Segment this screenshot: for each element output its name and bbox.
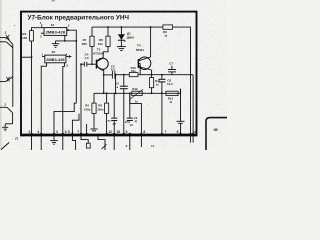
resistor R4 bbox=[92, 103, 96, 113]
pin tick 1 bbox=[41, 24, 43, 27]
wire cap C11 to border bbox=[113, 121, 115, 134]
resistor R1 bbox=[30, 31, 34, 41]
pin stub A1 left bbox=[41, 32, 44, 34]
wire R8 to collector bbox=[103, 46, 108, 58]
wire below pin 7 bbox=[81, 136, 88, 143]
wire feedback y41 bbox=[56, 40, 77, 42]
Q2 collector lead up bbox=[139, 57, 151, 61]
ground above border bbox=[177, 121, 185, 123]
Q1 base bar bbox=[95, 60, 97, 69]
node dot pin bbox=[123, 133, 125, 135]
node dot bbox=[67, 29, 69, 31]
Q1 emitter lead with arrow bbox=[97, 66, 104, 70]
wire jog to pin 5 bbox=[72, 114, 79, 134]
wire below pin 9 bbox=[140, 136, 142, 147]
node dot bbox=[115, 74, 117, 76]
resistor R13 on bus bbox=[166, 91, 178, 95]
wire to C5 bbox=[104, 74, 113, 76]
module A1 (filter 2МВ3-426) bbox=[44, 28, 67, 36]
wire R11 to bus bbox=[151, 88, 153, 94]
pin stub A2 right with tick bbox=[66, 55, 72, 58]
node dot emitter/C5 tap bbox=[103, 74, 105, 76]
wire A1 output jog down to pin 3 bbox=[54, 103, 76, 134]
Q1 collector lead bbox=[97, 58, 104, 62]
wire below pin 16 bbox=[113, 136, 115, 150]
capacitor C6 electrolytic bbox=[120, 75, 128, 94]
transistor Q2 МП41 bbox=[138, 57, 150, 69]
capacitor C4 bbox=[84, 62, 87, 67]
wire rail to R7 bbox=[91, 27, 93, 36]
connector arrow input 1 (left outside) bbox=[0, 35, 13, 48]
node dot pin 7 bbox=[161, 133, 163, 135]
wire R4 to ground bbox=[93, 113, 95, 128]
wire stub pin 8a bbox=[86, 124, 88, 134]
ground below pin 3 bbox=[50, 136, 58, 144]
bus wire y93.3 bbox=[94, 92, 181, 94]
pin stub A1 bottom right bbox=[64, 35, 66, 41]
wire below bbox=[190, 136, 192, 143]
node dot pin 16 bbox=[113, 133, 115, 135]
pin stub A2 left bbox=[42, 56, 45, 58]
node dot on bus bbox=[161, 92, 163, 94]
node dot pin 5 bbox=[71, 133, 73, 135]
wire x81 to C4 bbox=[81, 63, 84, 65]
capacitor C5 bbox=[112, 71, 115, 79]
wire rail right segment bbox=[173, 27, 191, 134]
resistor R11 bbox=[150, 78, 154, 88]
capacitor C8 electrolytic bbox=[158, 75, 165, 134]
node dot pin 12 bbox=[106, 133, 108, 135]
node dot bus jog bbox=[129, 92, 131, 94]
connector lug below pin 7 bbox=[86, 143, 90, 148]
ground below zener bbox=[117, 47, 126, 51]
resistor R7 bbox=[90, 36, 94, 46]
wire below pin 5 bbox=[72, 136, 75, 150]
wire down from bus end bbox=[180, 93, 182, 121]
wire bus jog to pin 9 bbox=[130, 93, 142, 134]
node dot bbox=[129, 133, 131, 135]
resistor R9 in rail bbox=[163, 25, 173, 29]
wire bus to cap C11 bbox=[114, 93, 115, 118]
connector mark below bbox=[102, 144, 107, 149]
wire Q1 emitter down bbox=[103, 70, 105, 93]
transistor Q1 КТ315Б bbox=[97, 58, 108, 69]
wire below bbox=[192, 136, 194, 143]
wire bus to R5 bbox=[106, 93, 108, 103]
node dot pin bbox=[192, 133, 194, 135]
node dot bbox=[150, 26, 152, 28]
wire shield run (left outside vertical) bbox=[12, 44, 14, 107]
node dot bbox=[86, 133, 88, 135]
wire bus to R4 bbox=[93, 93, 95, 103]
node dot pin 4 bbox=[40, 133, 42, 135]
node dot emitter on bus bbox=[103, 92, 105, 94]
scan page edge artifact bbox=[0, 0, 2, 150]
node dot rail bbox=[107, 26, 109, 28]
node dot bbox=[64, 40, 66, 42]
node dot on bus bbox=[151, 92, 153, 94]
connector stub input 3 (left outside) bbox=[0, 107, 13, 127]
wire below border jog bbox=[98, 136, 105, 150]
wire C5 to R10 bbox=[115, 74, 129, 76]
wire rail to R8 bbox=[107, 27, 109, 36]
block B (bottom right neighbouring unit) bbox=[206, 118, 227, 150]
module A2 (filter 2МВ3-426) bbox=[45, 55, 66, 63]
trimmer R12 bbox=[132, 91, 142, 95]
node dot bbox=[151, 74, 153, 76]
node dot bbox=[91, 63, 93, 65]
wire A1 output right then down bbox=[67, 30, 77, 103]
node dot bbox=[190, 74, 192, 76]
wire bus down to cap C9 bbox=[129, 93, 131, 118]
wire diagonal bottom-left bbox=[1, 142, 9, 149]
resistor R8 bbox=[106, 36, 110, 46]
wire R7 to base node bbox=[91, 46, 93, 64]
terminal bar on bus end bbox=[180, 89, 182, 94]
zener diode Д1 Д808 bbox=[118, 26, 125, 46]
wire C6 down to pin 6b bbox=[123, 93, 125, 134]
wire Q2 base drop bbox=[138, 64, 140, 75]
wire C4 to base bbox=[87, 63, 97, 65]
node dot pin 2 bbox=[30, 133, 32, 135]
wire Q2 emitter down bbox=[151, 70, 153, 78]
wire supply mid rail y74.7 bbox=[152, 74, 194, 76]
wire ground to border bbox=[180, 123, 182, 134]
node dot bbox=[80, 63, 82, 65]
capacitor C9 to rail bbox=[127, 118, 133, 120]
node dot C8 tap bbox=[161, 74, 163, 76]
ground under A1 bbox=[52, 41, 59, 47]
wire R5 to pin 12 bbox=[106, 113, 108, 133]
main block bottom thick bus line bbox=[20, 134, 197, 137]
wire tee down from C5 out bbox=[115, 75, 117, 94]
wire R1 top to module A1 bbox=[32, 28, 45, 31]
capacitor C7 bbox=[168, 66, 176, 75]
power rail top bbox=[92, 26, 163, 28]
capacitor C11 to rail bbox=[111, 118, 117, 120]
node dot pin bbox=[190, 133, 192, 135]
scan speck bbox=[14, 25, 15, 26]
wire Q2 collector to rail bbox=[150, 27, 152, 57]
node dot pin 3 bbox=[53, 133, 55, 135]
wire input node x81 vertical bbox=[80, 64, 82, 134]
node dot pin 8 bbox=[179, 133, 181, 135]
ground (left outside) bbox=[2, 127, 8, 130]
wire R1 bottom to pin 2 rail bbox=[31, 41, 33, 150]
node dot bbox=[75, 40, 77, 42]
scan noise overlay bbox=[0, 0, 227, 150]
resistor R5 bbox=[105, 103, 109, 113]
ground above border bbox=[90, 129, 97, 131]
wire supply branch down bbox=[192, 75, 194, 134]
wire pin 6c below bbox=[129, 136, 131, 150]
wire A2 pin to block pin 4 bbox=[41, 63, 46, 150]
node dot on bus bbox=[123, 92, 125, 94]
node dot pin 9 bbox=[140, 133, 142, 135]
Q2 base bar bbox=[137, 59, 139, 68]
node dot bus bbox=[106, 92, 108, 94]
wire R10 to Q2 branch bbox=[138, 74, 152, 76]
node dot pin 7 bbox=[80, 133, 82, 135]
node dot on bus bbox=[115, 92, 117, 94]
trimmer R12 arrow bbox=[131, 89, 143, 98]
wire stub from left border bbox=[22, 56, 32, 58]
scan smudge top bbox=[52, 0, 55, 1]
node dot pin 6 bbox=[62, 133, 64, 135]
node dot bbox=[31, 56, 33, 58]
wire A2 pin to block pin 6 bbox=[63, 63, 65, 150]
connector arrow input 2 (left outside) bbox=[0, 77, 13, 82]
node dot C6 tap bbox=[123, 74, 125, 76]
Q2 emitter lead down with arrow bbox=[139, 65, 152, 70]
pin tick A1 right top bbox=[66, 27, 68, 30]
resistor R10 bbox=[129, 73, 138, 77]
main block border У7 bbox=[21, 12, 197, 135]
